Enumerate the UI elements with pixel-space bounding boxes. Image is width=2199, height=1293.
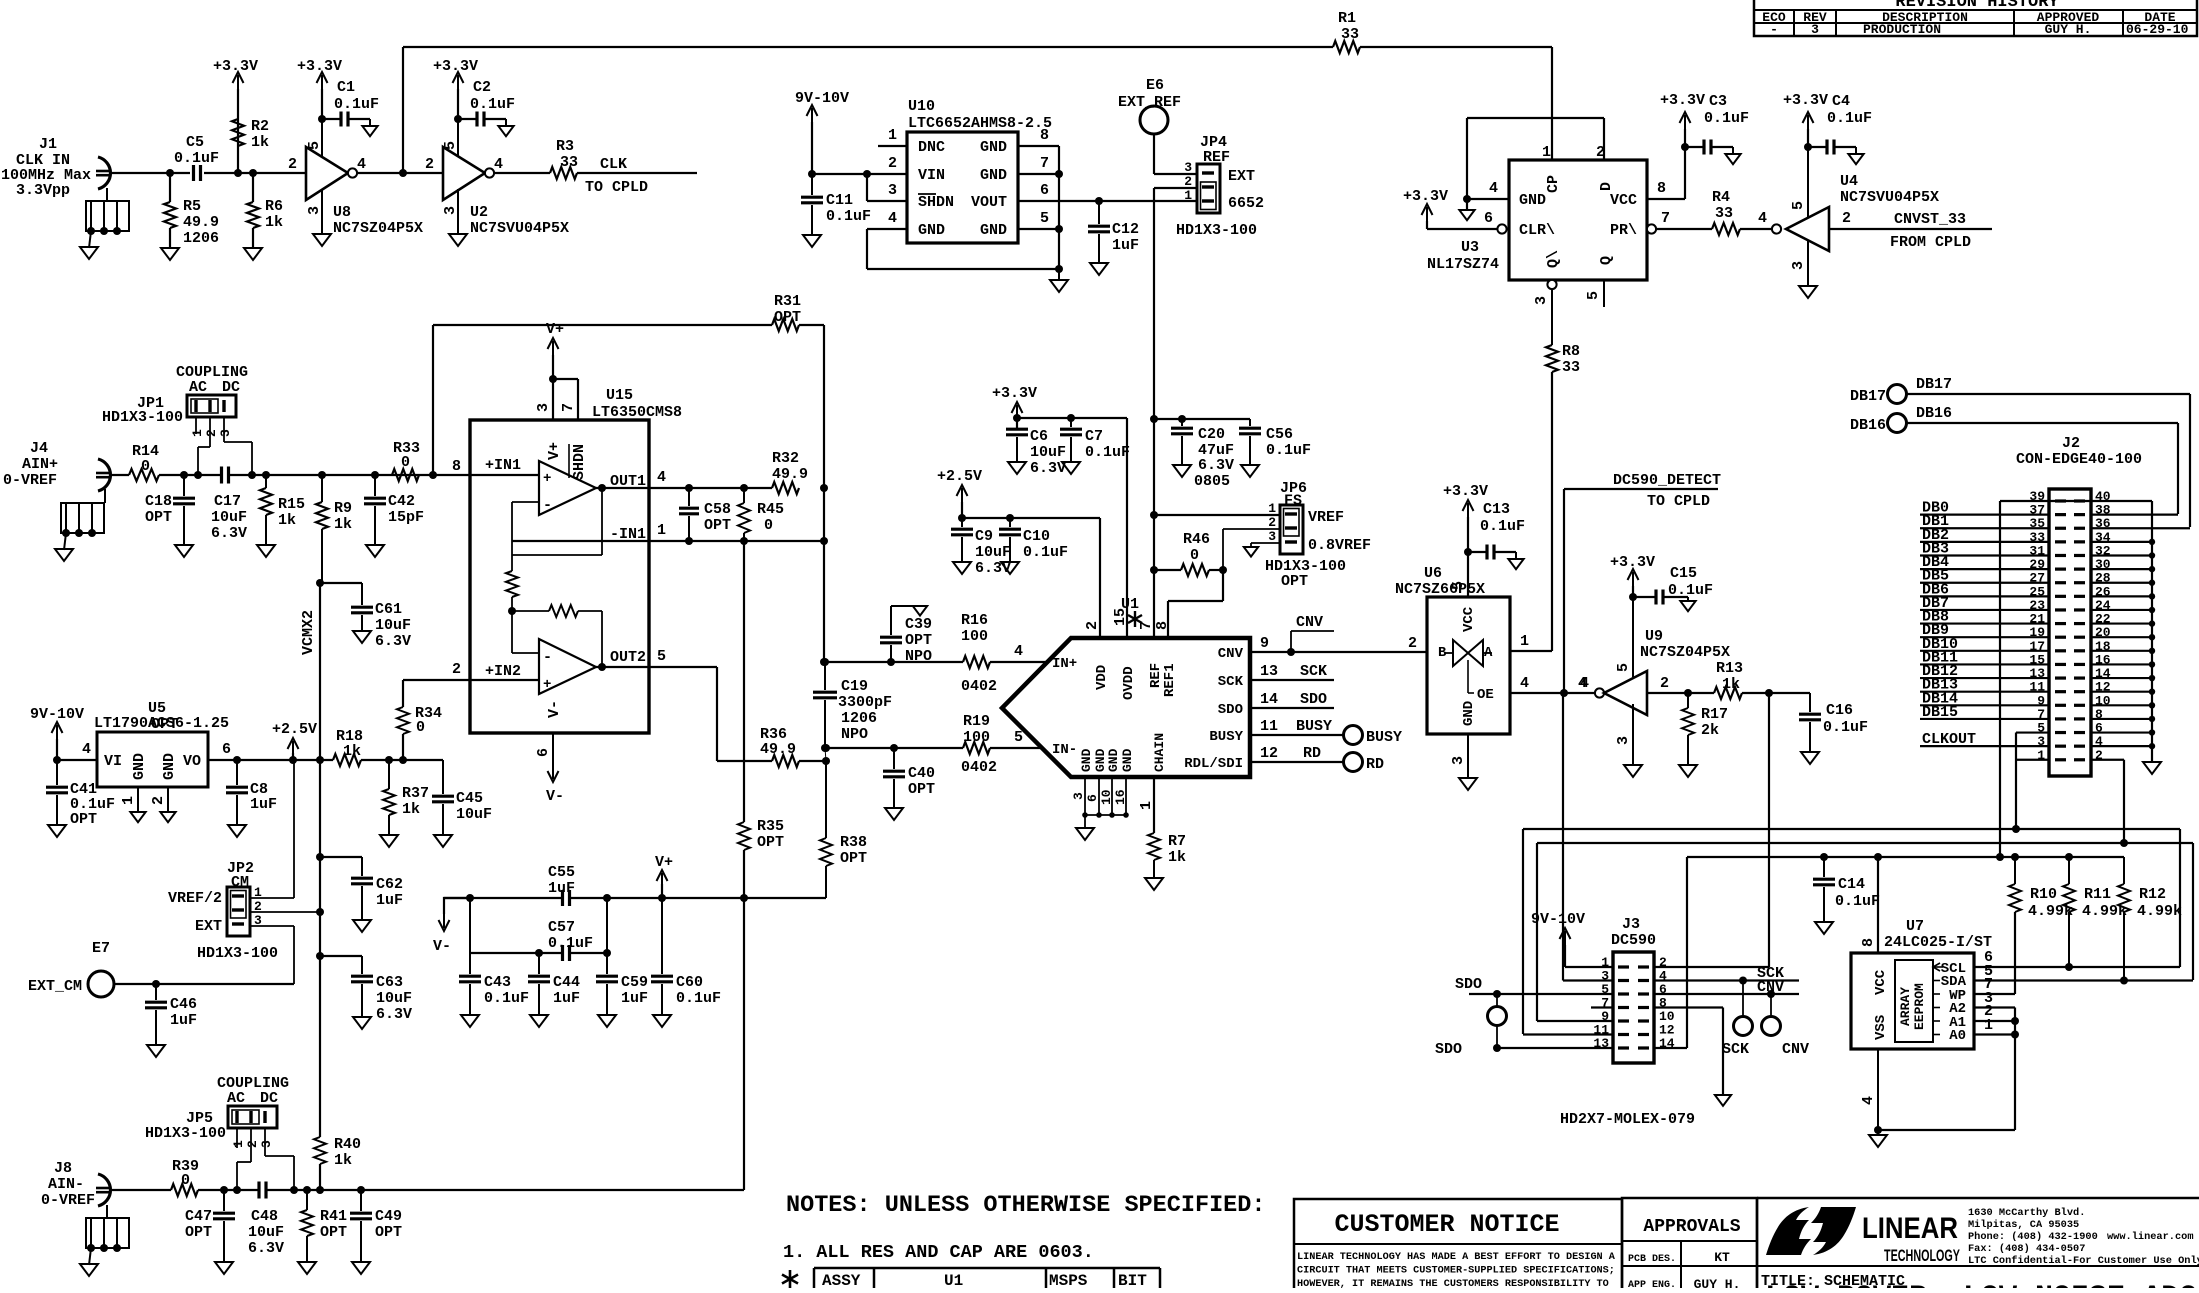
svg-text:C45: C45 <box>456 790 483 807</box>
svg-text:3: 3 <box>259 1140 274 1148</box>
svg-text:SHDN: SHDN <box>571 444 588 480</box>
wire clock bus to R1 <box>403 46 1333 48</box>
svg-text:C9: C9 <box>975 528 993 545</box>
svg-text:GND: GND <box>1519 192 1546 209</box>
ground at C15 <box>1680 601 1695 611</box>
svg-text:1k: 1k <box>278 512 296 529</box>
svg-text:2: 2 <box>425 156 434 173</box>
svg-text:8: 8 <box>1657 180 1666 197</box>
wire R4 to U4 <box>1740 228 1772 230</box>
capacitor C58 <box>685 484 693 492</box>
capacitor C6 <box>1013 414 1021 422</box>
svg-text:ARRAY: ARRAY <box>1898 987 1913 1026</box>
ground at C8 <box>228 825 246 837</box>
ground at R15 <box>257 545 275 557</box>
svg-text:VCC: VCC <box>1461 606 1477 632</box>
svg-text:V+: V+ <box>546 321 564 338</box>
capacitor C62 <box>316 853 324 861</box>
svg-text:1uF: 1uF <box>621 990 648 1007</box>
U10 pin6 VOUT wire <box>1018 200 1197 202</box>
svg-text:C62: C62 <box>376 876 403 893</box>
svg-text:5: 5 <box>657 648 666 665</box>
svg-text:9: 9 <box>1260 635 1269 652</box>
wire R18 to R34/R37 node <box>361 759 403 761</box>
svg-text:3: 3 <box>218 429 233 437</box>
svg-text:C59: C59 <box>621 974 648 991</box>
wire +IN2 external to R34 <box>403 679 471 681</box>
jumper JP5 coupling <box>228 1106 277 1128</box>
svg-text:C56: C56 <box>1266 426 1293 443</box>
svg-text:R19: R19 <box>963 713 990 730</box>
svg-text:GND: GND <box>980 167 1007 184</box>
svg-text:6.3V: 6.3V <box>1030 460 1066 477</box>
svg-text:U4: U4 <box>1840 173 1858 190</box>
svg-text:8: 8 <box>1040 127 1049 144</box>
wire U7 address pins to gnd <box>1878 1129 2015 1131</box>
svg-text:33: 33 <box>560 154 578 171</box>
svg-text:GND: GND <box>980 139 1007 156</box>
svg-text:6: 6 <box>222 741 231 758</box>
svg-text:U8: U8 <box>333 204 351 221</box>
wire R31 riser <box>432 325 434 475</box>
testpoint RD <box>1344 753 1363 772</box>
svg-text:C47: C47 <box>185 1208 212 1225</box>
svg-text:13: 13 <box>1260 663 1278 680</box>
svg-text:CUSTOMER NOTICE: CUSTOMER NOTICE <box>1334 1210 1559 1239</box>
svg-text:R38: R38 <box>840 834 867 851</box>
J4 shield ground box <box>61 503 104 533</box>
U10 pin4 GND <box>867 228 907 230</box>
svg-text:+3.3V: +3.3V <box>1783 92 1828 109</box>
svg-text:V-: V- <box>546 788 564 805</box>
svg-text:2: 2 <box>1842 210 1851 227</box>
J2 row5 wire <box>2016 731 2049 733</box>
svg-text:HD2X7-MOLEX-079: HD2X7-MOLEX-079 <box>1560 1111 1695 1128</box>
Linear Technology logo <box>1766 1207 1811 1255</box>
resistor R4 <box>1712 223 1740 235</box>
svg-text:4: 4 <box>1520 675 1529 692</box>
svg-text:1206: 1206 <box>841 710 877 727</box>
capacitor C56 <box>1249 419 1251 426</box>
U15 internal feedback A <box>601 488 603 555</box>
svg-text:4: 4 <box>657 469 666 486</box>
svg-text:+3.3V: +3.3V <box>213 58 258 75</box>
svg-text:U15: U15 <box>606 387 633 404</box>
resistor R2 <box>234 169 242 177</box>
resistor R45 <box>740 484 748 492</box>
svg-text:VCMX2: VCMX2 <box>300 610 317 655</box>
capacitor C11 <box>808 170 816 178</box>
node CLK feedback riser <box>399 169 407 177</box>
svg-text:C60: C60 <box>676 974 703 991</box>
svg-text:VSS: VSS <box>1873 1015 1889 1040</box>
resistor R14 <box>129 469 159 481</box>
title block border <box>1757 1197 2199 1200</box>
svg-text:9V-10V: 9V-10V <box>795 90 849 107</box>
svg-text:2: 2 <box>452 661 461 678</box>
svg-text:24LC025-I/ST: 24LC025-I/ST <box>1884 934 1992 951</box>
ground at R7 <box>1145 878 1163 890</box>
wire JP2 pin2 to VCMX2 <box>250 911 320 913</box>
wire V- rail to C55 <box>444 897 562 899</box>
U3 pin4 GND stub <box>1467 198 1509 200</box>
svg-text:6.3V: 6.3V <box>375 633 411 650</box>
assembly table star <box>789 1270 792 1288</box>
svg-text:0.8VREF: 0.8VREF <box>1308 537 1371 554</box>
svg-text:1k: 1k <box>1722 676 1740 693</box>
wire C55 to V+ node <box>570 897 744 899</box>
svg-text:C15: C15 <box>1670 565 1697 582</box>
U1 CHAIN pin1 wire <box>1153 777 1155 833</box>
ground at C62 <box>353 920 371 932</box>
net SCL rail riser <box>2179 829 2181 967</box>
svg-text:IN+: IN+ <box>1052 656 1077 672</box>
svg-text:VI: VI <box>104 753 122 770</box>
ground at C56 <box>1241 465 1259 477</box>
svg-text:EXT_REF: EXT_REF <box>1118 94 1181 111</box>
svg-text:C19: C19 <box>841 678 868 695</box>
svg-text:C1: C1 <box>337 79 355 96</box>
ground at C1 <box>362 126 377 136</box>
svg-text:1k: 1k <box>402 801 420 818</box>
svg-text:SDO: SDO <box>1435 1041 1462 1058</box>
U3 pin8 VCC wire <box>1647 198 1685 200</box>
svg-text:4.99k: 4.99k <box>2137 903 2182 920</box>
svg-text:CNV: CNV <box>1782 1041 1809 1058</box>
J2 row38 wire <box>2091 514 2178 516</box>
resistor R1 <box>1333 41 1360 53</box>
power 9V-10V at U10 <box>811 108 813 122</box>
svg-text:1: 1 <box>1520 633 1529 650</box>
svg-text:R8: R8 <box>1562 343 1580 360</box>
wire JP6 pin1 VREF <box>1150 511 1158 519</box>
svg-text:06-29-10: 06-29-10 <box>2126 22 2189 37</box>
testpoint DB17 <box>1888 385 1907 404</box>
svg-text:5: 5 <box>442 141 459 150</box>
wire +IN1 inside <box>471 474 539 476</box>
capacitor C45 <box>403 759 443 761</box>
ground at C14 <box>1815 922 1833 934</box>
svg-text:1uF: 1uF <box>376 892 403 909</box>
net CNV at J3 <box>1654 993 1799 995</box>
U10 pin2 VIN wire <box>812 173 907 175</box>
svg-text:GND: GND <box>161 753 178 780</box>
svg-text:4: 4 <box>1578 675 1587 692</box>
svg-text:16: 16 <box>1113 789 1128 805</box>
resistor R12 <box>2123 857 2125 884</box>
svg-text:4: 4 <box>1014 643 1023 660</box>
ground at C60 <box>653 1015 671 1027</box>
svg-text:HD1X3-100: HD1X3-100 <box>1176 222 1257 239</box>
resistor R10 <box>2014 857 2016 884</box>
svg-text:C6: C6 <box>1030 428 1048 445</box>
U15 pin3 V+ wire <box>549 375 557 383</box>
svg-text:CLKOUT: CLKOUT <box>1922 731 1976 748</box>
svg-text:1uF: 1uF <box>548 880 575 897</box>
svg-text:-: - <box>543 497 552 514</box>
svg-text:VDD: VDD <box>1094 665 1110 690</box>
svg-text:10uF: 10uF <box>248 1224 284 1241</box>
U7 pin8 VCC riser <box>1877 857 1879 953</box>
testpoint BUSY <box>1344 726 1363 745</box>
svg-text:GND: GND <box>918 222 945 239</box>
resistor R5 <box>166 169 174 177</box>
resistor R36 <box>717 760 772 762</box>
svg-text:0: 0 <box>416 719 425 736</box>
svg-text:CIRCUIT THAT MEETS CUSTOMER-SU: CIRCUIT THAT MEETS CUSTOMER-SUPPLIED SPE… <box>1297 1266 1615 1277</box>
power V- at U15 <box>552 765 554 779</box>
svg-text:6.3V: 6.3V <box>1198 457 1234 474</box>
ground at C16 <box>1801 752 1819 764</box>
wire J3 pin11 <box>1523 1033 1613 1035</box>
resistor R15 <box>262 471 270 479</box>
svg-text:DC: DC <box>222 379 240 396</box>
svg-text:2: 2 <box>245 1140 260 1148</box>
J2 row40 wire to gnd bus <box>2049 500 2152 502</box>
svg-text:CNV: CNV <box>1757 979 1784 996</box>
svg-text:+2.5V: +2.5V <box>272 721 317 738</box>
svg-text:R32: R32 <box>772 450 799 467</box>
net SCK at J3 <box>1654 979 1799 981</box>
U15 internal gain resistor horizontal <box>512 610 549 612</box>
svg-text:NC7SZ66P5X: NC7SZ66P5X <box>1395 581 1485 598</box>
svg-text:EXT_CM: EXT_CM <box>28 978 82 995</box>
svg-text:0.1uF: 0.1uF <box>470 96 515 113</box>
svg-text:BIT: BIT <box>1118 1272 1147 1288</box>
svg-text:1: 1 <box>190 429 205 437</box>
svg-text:LT6350CMS8: LT6350CMS8 <box>592 404 682 421</box>
wire J3 pin8 ground <box>1654 1006 1723 1008</box>
capacitor C3 <box>1681 143 1689 151</box>
ground at J3 <box>1715 1095 1731 1106</box>
net CLKOUT row3 <box>1920 745 2049 747</box>
ground at C46 <box>147 1045 165 1057</box>
svg-text:R7: R7 <box>1168 833 1186 850</box>
svg-text:8: 8 <box>1154 621 1171 630</box>
JP5 pin1 stub <box>236 1128 238 1148</box>
svg-text:U6: U6 <box>1424 565 1442 582</box>
svg-text:CHAIN: CHAIN <box>1152 733 1167 772</box>
capacitor C55 series <box>561 890 564 906</box>
U1 pin9 CNV wire to U6 <box>1250 651 1427 653</box>
svg-text:0.1uF: 0.1uF <box>1085 444 1130 461</box>
svg-text:1k: 1k <box>265 214 283 231</box>
wire JP2 pin3 to EXT_CM <box>250 925 294 927</box>
svg-text:PR\: PR\ <box>1610 222 1637 239</box>
wire J8 to R39 <box>109 1189 171 1191</box>
ground at C13 <box>1508 559 1523 569</box>
svg-text:J4: J4 <box>30 440 48 457</box>
svg-text:HD1X3-100: HD1X3-100 <box>102 409 183 426</box>
svg-text:U9: U9 <box>1645 628 1663 645</box>
ground at C18 <box>175 545 193 557</box>
svg-text:AC: AC <box>189 379 207 396</box>
ground at C41 <box>48 825 66 837</box>
capacitor C49 <box>357 1186 365 1194</box>
svg-text:CNV: CNV <box>1218 646 1244 662</box>
capacitor C2 <box>454 115 462 123</box>
resistor R31 <box>433 324 772 326</box>
JP1 pin2 wire to C17 left <box>209 417 211 447</box>
svg-text:5: 5 <box>1450 581 1467 590</box>
svg-text:www.linear.com: www.linear.com <box>2107 1231 2194 1243</box>
svg-text:CLK: CLK <box>600 156 627 173</box>
jumper JP6 FS <box>1280 505 1303 554</box>
svg-text:R40: R40 <box>334 1136 361 1153</box>
U1 pin12 RD wire <box>1250 761 1344 763</box>
svg-text:C57: C57 <box>548 919 575 936</box>
capacitor C40 <box>890 744 898 752</box>
svg-text:SCK: SCK <box>1722 1041 1749 1058</box>
revision history table <box>1754 0 2197 36</box>
svg-text:C61: C61 <box>375 601 402 618</box>
svg-text:R10: R10 <box>2030 886 2057 903</box>
testpoint E6 EXT_REF <box>1140 106 1168 134</box>
resistor R8 <box>1551 344 1553 346</box>
svg-text:OPT: OPT <box>1281 573 1308 590</box>
U5 gnd pins <box>137 787 139 812</box>
svg-text:2k: 2k <box>1701 722 1719 739</box>
svg-text:OPT: OPT <box>70 811 97 828</box>
wire AIN- riser to R35 <box>743 898 745 1190</box>
svg-text:EXT: EXT <box>195 918 222 935</box>
svg-text:6.3V: 6.3V <box>248 1240 284 1257</box>
wire +2.5V node to R18 <box>293 759 333 761</box>
node R31 riser junction <box>429 471 437 479</box>
svg-text:+3.3V: +3.3V <box>1403 188 1448 205</box>
svg-text:REF1: REF1 <box>1162 663 1178 697</box>
svg-text:GND: GND <box>131 753 148 780</box>
wire R13 node <box>1742 692 1810 694</box>
connector J8 AIN- <box>98 1174 110 1206</box>
svg-text:DB15: DB15 <box>1922 704 1958 721</box>
wire R13 node to J3 pin2 <box>1768 693 1770 967</box>
svg-text:C16: C16 <box>1826 702 1853 719</box>
wire J3 pin14 <box>1654 1047 1687 1049</box>
svg-text:LINEAR TECHNOLOGY HAS MADE A B: LINEAR TECHNOLOGY HAS MADE A BEST EFFORT… <box>1297 1252 1616 1263</box>
capacitor C39 <box>887 658 895 666</box>
capacitor C5 <box>192 165 195 181</box>
ground at C42 <box>366 545 384 557</box>
svg-text:0.1uF: 0.1uF <box>334 96 379 113</box>
ground at R5 <box>161 248 179 260</box>
svg-text:0.1uF: 0.1uF <box>484 990 529 1007</box>
svg-text:49.9: 49.9 <box>183 214 219 231</box>
wire R31 down to OUT1 node <box>823 325 825 662</box>
capacitor C42 <box>371 471 379 479</box>
svg-text:+3.3V: +3.3V <box>433 58 478 75</box>
svg-text:VIN: VIN <box>918 167 945 184</box>
svg-text:DC590: DC590 <box>1611 932 1656 949</box>
svg-text:5: 5 <box>1014 729 1023 746</box>
U3 pin2 D loop to gnd <box>1603 139 1605 160</box>
wire C17 to U15 <box>229 474 471 476</box>
svg-text:R46: R46 <box>1183 531 1210 548</box>
ground at C12 <box>1090 263 1108 275</box>
svg-text:0.1uF: 0.1uF <box>1704 110 1749 127</box>
svg-text:OPT: OPT <box>375 1224 402 1241</box>
svg-text:C39: C39 <box>905 616 932 633</box>
svg-text:SDO: SDO <box>1455 976 1482 993</box>
U3 pin3 Q-bar <box>1547 280 1556 289</box>
ground at C2 <box>498 126 513 136</box>
svg-text:14: 14 <box>1260 691 1278 708</box>
svg-text:EEPROM: EEPROM <box>1912 983 1927 1030</box>
svg-text:MSPS: MSPS <box>1049 1272 1088 1288</box>
svg-text:HOWEVER, IT REMAINS THE CUSTOM: HOWEVER, IT REMAINS THE CUSTOMERS RESPON… <box>1297 1279 1609 1288</box>
svg-text:0402: 0402 <box>961 678 997 695</box>
svg-text:E7: E7 <box>92 940 110 957</box>
svg-text:0: 0 <box>141 458 150 475</box>
svg-text:VREF/2: VREF/2 <box>168 890 222 907</box>
svg-text:R3: R3 <box>556 138 574 155</box>
ground at C3 <box>1725 154 1740 164</box>
ground at C4 <box>1848 154 1863 164</box>
U9 pin5 riser <box>1632 597 1634 677</box>
capacitor C15 <box>1629 593 1637 601</box>
svg-text:1k: 1k <box>334 1152 352 1169</box>
U1 assembly star <box>1134 611 1136 627</box>
power +3.3V at R2 <box>237 75 239 89</box>
capacitor C19 diff <box>824 662 826 690</box>
U6 pin1 A wire <box>1510 650 1552 652</box>
svg-text:0402: 0402 <box>961 759 997 776</box>
resistor R9 <box>318 471 326 479</box>
svg-text:5: 5 <box>1040 210 1049 227</box>
U3 pin5 Q stub <box>1603 280 1605 307</box>
svg-text:C58: C58 <box>704 501 731 518</box>
svg-text:-: - <box>543 649 552 666</box>
svg-text:VCC: VCC <box>1873 969 1889 995</box>
wire E7 to JP2 <box>114 983 294 985</box>
svg-text:V-: V- <box>546 700 563 718</box>
svg-text:10uF: 10uF <box>975 544 1011 561</box>
svg-text:CNV: CNV <box>1296 614 1323 631</box>
svg-text:V-: V- <box>433 938 451 955</box>
capacitor C61 <box>316 579 324 587</box>
wire J3 pin2 to R13 node <box>1654 966 1769 968</box>
resistor R39 <box>171 1184 198 1196</box>
svg-text:C4: C4 <box>1832 93 1850 110</box>
U1 pin15 OVDD riser <box>1126 418 1128 638</box>
wire J3 pin9 <box>1537 1020 1613 1022</box>
capacitor C8 <box>233 756 241 764</box>
svg-text:7: 7 <box>560 403 577 412</box>
opamp A of U15 <box>539 461 596 515</box>
ground at C20 <box>1173 465 1191 477</box>
svg-text:1: 1 <box>657 522 666 539</box>
U7 A2 pin3 wire <box>1974 1006 2015 1008</box>
net DC590_DETECT <box>1563 489 1565 693</box>
U1 pin14 SDO stub <box>1250 707 1334 709</box>
svg-text:5: 5 <box>306 141 323 150</box>
wire -IN1 pin1 external <box>649 540 824 542</box>
svg-text:LTC6652AHMS8-2.5: LTC6652AHMS8-2.5 <box>908 115 1052 132</box>
wire R1 to U3 CP <box>1360 46 1552 48</box>
svg-text:2: 2 <box>1084 621 1101 630</box>
U8 pin3 ground <box>321 189 323 234</box>
svg-text:C11: C11 <box>826 192 853 209</box>
J2 gnd bus dots <box>2091 541 2152 543</box>
inverter U8 NC7SZ04P5X <box>306 147 348 200</box>
wire R14 to C17 <box>159 474 221 476</box>
svg-text:3: 3 <box>1450 756 1467 765</box>
svg-text:DC: DC <box>260 1090 278 1107</box>
capacitor C13 <box>1464 548 1472 556</box>
svg-text:R2: R2 <box>251 118 269 135</box>
resistor R38 <box>825 761 827 838</box>
svg-text:3: 3 <box>888 182 897 199</box>
